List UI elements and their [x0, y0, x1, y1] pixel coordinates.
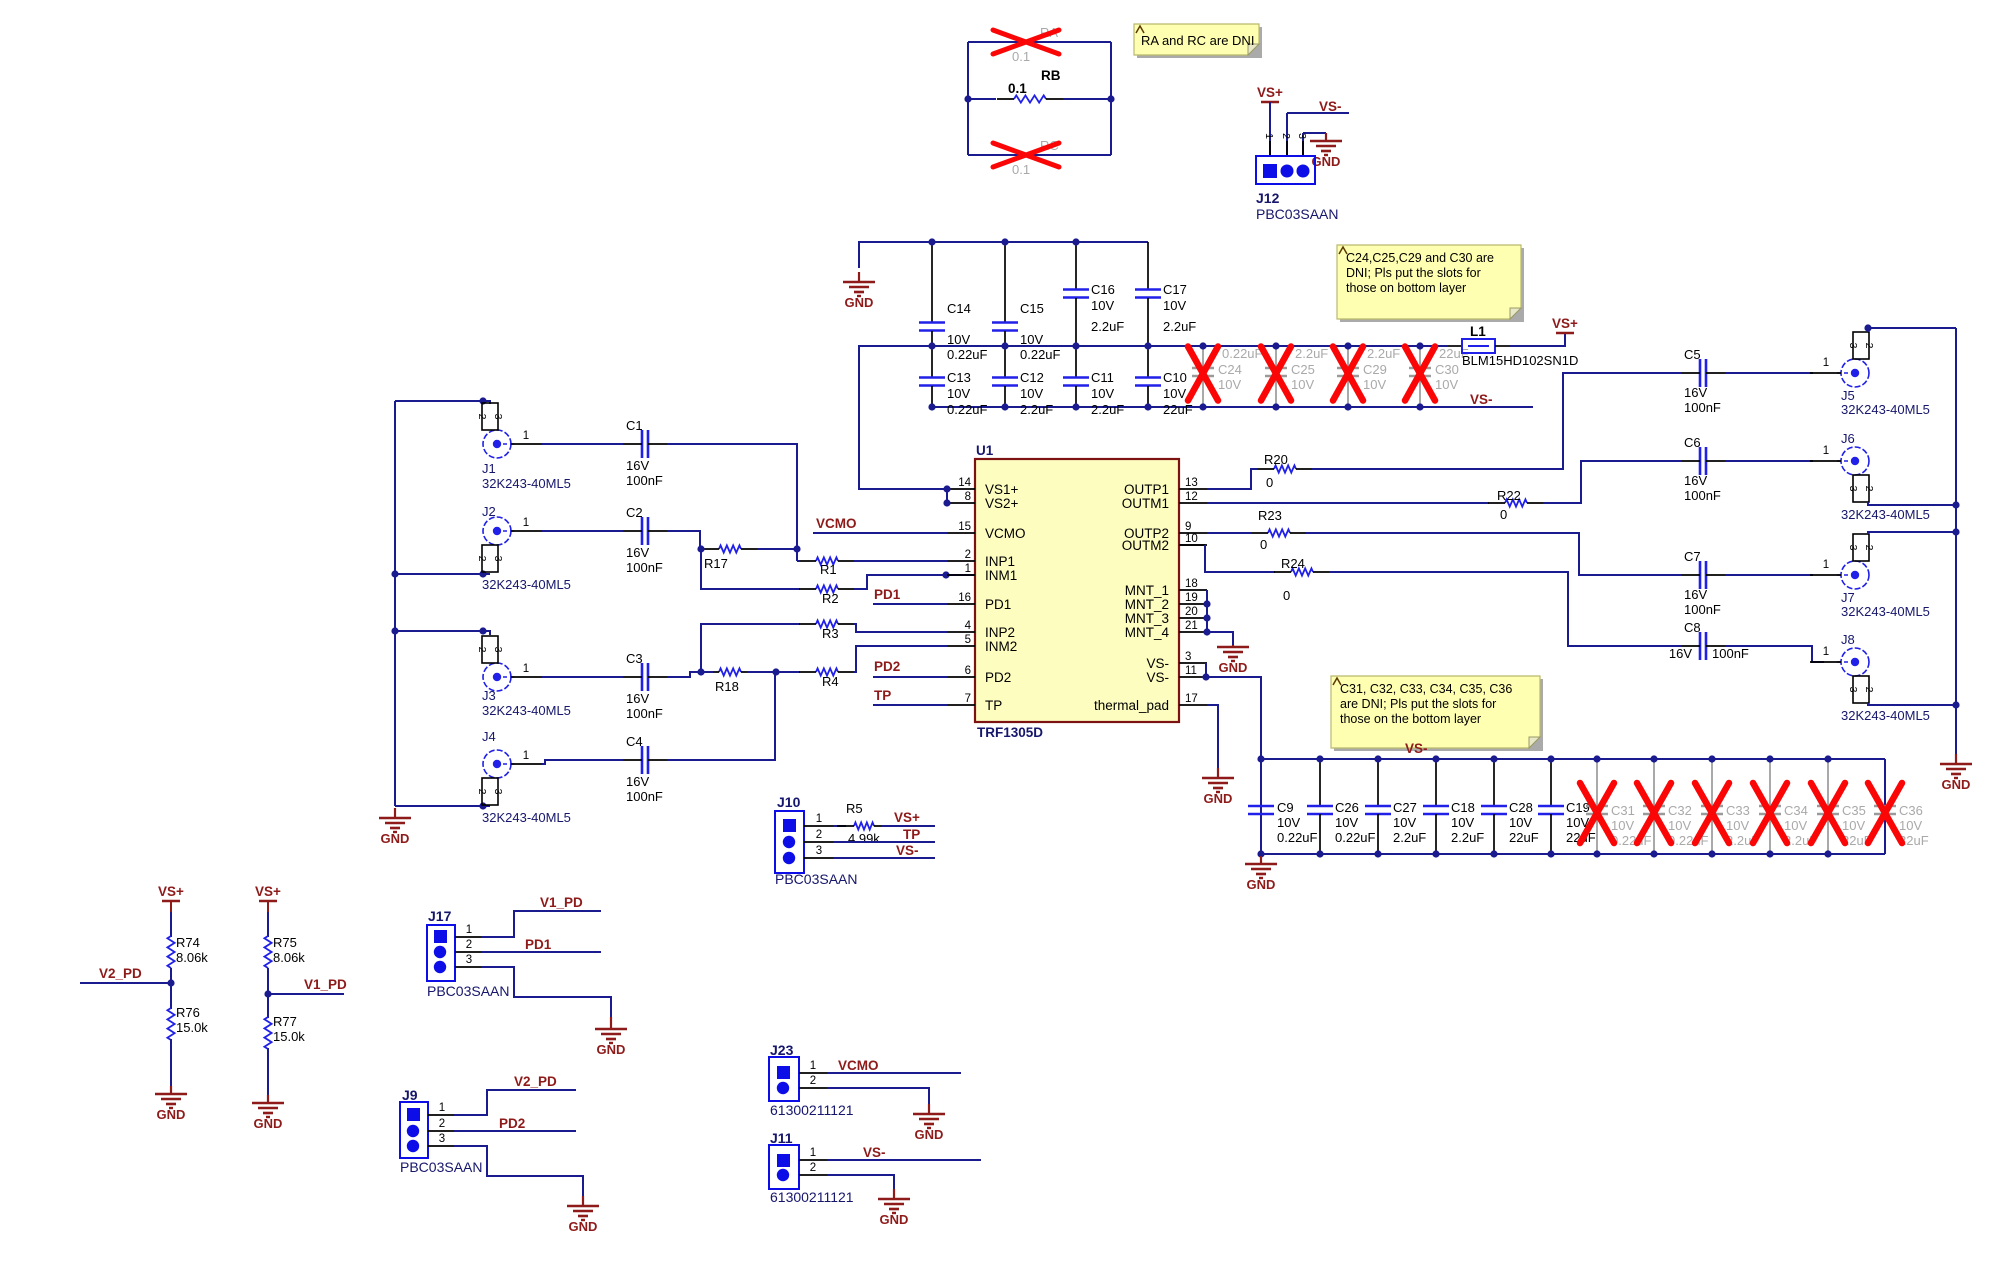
svg-text:0.22uF: 0.22uF — [1335, 830, 1376, 845]
svg-text:10V: 10V — [1899, 818, 1922, 833]
svg-text:VS-: VS- — [1146, 656, 1169, 671]
svg-text:MNT_4: MNT_4 — [1125, 625, 1170, 640]
svg-text:PBC03SAAN: PBC03SAAN — [775, 871, 857, 887]
svg-text:2.2uF: 2.2uF — [1091, 402, 1124, 417]
svg-text:32K243-40ML5: 32K243-40ML5 — [1841, 708, 1930, 723]
svg-text:10V: 10V — [1163, 298, 1186, 313]
svg-text:2: 2 — [1863, 687, 1875, 693]
svg-text:V1_PD: V1_PD — [304, 977, 347, 992]
svg-text:C31: C31 — [1611, 803, 1635, 818]
svg-text:PBC03SAAN: PBC03SAAN — [400, 1159, 482, 1175]
svg-text:3: 3 — [1847, 486, 1859, 492]
svg-text:32K243-40ML5: 32K243-40ML5 — [482, 577, 571, 592]
svg-text:C7: C7 — [1684, 549, 1701, 564]
svg-text:GND: GND — [880, 1212, 909, 1227]
svg-text:61300211121: 61300211121 — [770, 1102, 854, 1118]
svg-text:C27: C27 — [1393, 800, 1417, 815]
svg-text:J5: J5 — [1841, 388, 1855, 403]
svg-text:VS+: VS+ — [1552, 316, 1578, 331]
svg-text:3: 3 — [1185, 651, 1191, 663]
svg-text:C33: C33 — [1726, 803, 1750, 818]
svg-text:2.2uF: 2.2uF — [1451, 830, 1484, 845]
svg-text:3: 3 — [816, 845, 822, 857]
svg-text:INP1: INP1 — [985, 554, 1015, 569]
svg-text:10: 10 — [1185, 533, 1198, 545]
svg-text:32K243-40ML5: 32K243-40ML5 — [482, 703, 571, 718]
svg-text:1: 1 — [1823, 445, 1829, 457]
svg-text:INP2: INP2 — [985, 625, 1015, 640]
svg-text:2: 2 — [476, 414, 488, 420]
svg-text:2: 2 — [1280, 133, 1292, 139]
svg-text:L1: L1 — [1470, 324, 1486, 339]
svg-text:R3: R3 — [822, 626, 839, 641]
svg-text:R18: R18 — [715, 679, 739, 694]
svg-text:C28: C28 — [1509, 800, 1533, 815]
svg-text:VS-: VS- — [1470, 392, 1493, 407]
svg-text:2: 2 — [1863, 545, 1875, 551]
svg-text:2.2uF: 2.2uF — [1295, 346, 1328, 361]
svg-text:0.1: 0.1 — [1012, 162, 1030, 177]
svg-text:U1: U1 — [976, 443, 994, 458]
svg-text:RA and RC are DNI: RA and RC are DNI — [1141, 33, 1254, 48]
svg-text:C12: C12 — [1020, 370, 1044, 385]
svg-text:0.22uF: 0.22uF — [947, 402, 988, 417]
svg-text:TP: TP — [903, 827, 920, 842]
svg-text:3: 3 — [1296, 133, 1308, 139]
svg-text:0.22uF: 0.22uF — [1277, 830, 1318, 845]
svg-text:VS+: VS+ — [894, 810, 920, 825]
svg-text:5: 5 — [965, 634, 971, 646]
svg-text:R74: R74 — [176, 935, 200, 950]
svg-text:18: 18 — [1185, 578, 1198, 590]
svg-text:PD1: PD1 — [525, 937, 552, 952]
svg-text:TP: TP — [874, 688, 891, 703]
svg-text:C16: C16 — [1091, 282, 1115, 297]
svg-text:10V: 10V — [1091, 386, 1114, 401]
svg-text:2: 2 — [466, 939, 472, 951]
svg-text:3: 3 — [1847, 545, 1859, 551]
svg-text:16: 16 — [958, 592, 971, 604]
svg-text:2.2uF: 2.2uF — [1091, 319, 1124, 334]
svg-text:PD2: PD2 — [985, 670, 1011, 685]
svg-text:C11: C11 — [1091, 370, 1114, 385]
svg-text:J10: J10 — [777, 794, 801, 810]
svg-text:100nF: 100nF — [1712, 646, 1749, 661]
svg-text:10V: 10V — [1163, 386, 1186, 401]
svg-text:1: 1 — [1823, 646, 1829, 658]
svg-text:2: 2 — [810, 1075, 816, 1087]
svg-text:10V: 10V — [1020, 386, 1043, 401]
svg-text:J3: J3 — [482, 688, 496, 703]
svg-text:J7: J7 — [1841, 590, 1855, 605]
svg-text:3: 3 — [492, 647, 504, 653]
svg-text:V1_PD: V1_PD — [540, 895, 583, 910]
svg-text:thermal_pad: thermal_pad — [1094, 698, 1169, 713]
svg-text:those on the bottom layer: those on the bottom layer — [1340, 712, 1481, 726]
svg-text:VS1+: VS1+ — [985, 482, 1019, 497]
svg-text:VS-: VS- — [896, 843, 919, 858]
svg-text:C3: C3 — [626, 651, 643, 666]
svg-text:10V: 10V — [1668, 818, 1691, 833]
svg-text:R20: R20 — [1264, 452, 1288, 467]
svg-text:10V: 10V — [1435, 377, 1458, 392]
svg-text:61300211121: 61300211121 — [770, 1189, 854, 1205]
svg-text:11: 11 — [1185, 665, 1197, 677]
svg-text:0: 0 — [1500, 507, 1507, 522]
svg-text:32K243-40ML5: 32K243-40ML5 — [1841, 402, 1930, 417]
svg-text:VS-: VS- — [1405, 741, 1428, 756]
svg-text:V2_PD: V2_PD — [99, 966, 142, 981]
svg-text:PD1: PD1 — [985, 597, 1011, 612]
svg-text:C34: C34 — [1784, 803, 1808, 818]
svg-text:1: 1 — [466, 924, 472, 936]
svg-text:VCMO: VCMO — [838, 1058, 879, 1073]
svg-text:C17: C17 — [1163, 282, 1187, 297]
svg-text:16V: 16V — [1669, 646, 1692, 661]
svg-text:1: 1 — [523, 750, 529, 762]
svg-text:VS+: VS+ — [1257, 85, 1283, 100]
svg-text:0.22uF: 0.22uF — [1222, 346, 1263, 361]
svg-text:10V: 10V — [1277, 815, 1300, 830]
svg-text:22uF: 22uF — [1163, 402, 1193, 417]
svg-text:15.0k: 15.0k — [273, 1029, 305, 1044]
svg-text:3: 3 — [1847, 343, 1859, 349]
svg-text:1: 1 — [816, 813, 822, 825]
svg-text:100nF: 100nF — [626, 560, 663, 575]
svg-text:OUTM2: OUTM2 — [1122, 538, 1169, 553]
svg-text:TP: TP — [985, 698, 1002, 713]
svg-text:9: 9 — [1185, 521, 1191, 533]
svg-text:TRF1305D: TRF1305D — [977, 725, 1043, 740]
svg-text:R77: R77 — [273, 1014, 297, 1029]
svg-text:0.22uF: 0.22uF — [1611, 833, 1652, 848]
svg-text:C14: C14 — [947, 301, 971, 316]
svg-text:100nF: 100nF — [626, 473, 663, 488]
svg-text:16V: 16V — [1684, 473, 1707, 488]
svg-text:V2_PD: V2_PD — [514, 1074, 557, 1089]
svg-text:GND: GND — [569, 1219, 598, 1234]
svg-text:16V: 16V — [626, 774, 649, 789]
svg-text:0: 0 — [1266, 475, 1273, 490]
svg-text:1: 1 — [523, 430, 529, 442]
svg-text:C25: C25 — [1291, 362, 1315, 377]
svg-text:C26: C26 — [1335, 800, 1359, 815]
svg-text:10V: 10V — [947, 386, 970, 401]
svg-text:10V: 10V — [1363, 377, 1386, 392]
svg-text:J17: J17 — [428, 908, 452, 924]
svg-text:10V: 10V — [1611, 818, 1634, 833]
svg-text:0.1: 0.1 — [1012, 49, 1030, 64]
svg-text:2: 2 — [1863, 486, 1875, 492]
svg-text:8: 8 — [965, 491, 971, 503]
svg-text:C10: C10 — [1163, 370, 1187, 385]
svg-text:J12: J12 — [1256, 190, 1280, 206]
svg-text:those on bottom layer: those on bottom layer — [1346, 281, 1466, 295]
svg-text:C36: C36 — [1899, 803, 1923, 818]
svg-text:VS+: VS+ — [158, 884, 184, 899]
svg-text:3: 3 — [439, 1133, 445, 1145]
svg-text:22uF: 22uF — [1509, 830, 1539, 845]
svg-text:R22: R22 — [1497, 488, 1521, 503]
svg-text:10V: 10V — [1842, 818, 1865, 833]
svg-text:0: 0 — [1260, 537, 1267, 552]
svg-text:GND: GND — [597, 1042, 626, 1057]
svg-text:100nF: 100nF — [1684, 602, 1721, 617]
svg-text:6: 6 — [965, 665, 971, 677]
svg-text:3: 3 — [1847, 687, 1859, 693]
svg-text:MNT_2: MNT_2 — [1125, 597, 1169, 612]
svg-text:C32: C32 — [1668, 803, 1692, 818]
svg-text:C6: C6 — [1684, 435, 1701, 450]
svg-text:RB: RB — [1041, 68, 1061, 83]
svg-text:R2: R2 — [822, 591, 839, 606]
svg-text:16V: 16V — [626, 545, 649, 560]
svg-text:32K243-40ML5: 32K243-40ML5 — [482, 476, 571, 491]
svg-text:16V: 16V — [1684, 587, 1707, 602]
svg-text:10V: 10V — [1218, 377, 1241, 392]
svg-text:C9: C9 — [1277, 800, 1294, 815]
svg-text:10V: 10V — [1726, 818, 1749, 833]
svg-text:MNT_3: MNT_3 — [1125, 611, 1169, 626]
svg-text:32K243-40ML5: 32K243-40ML5 — [1841, 507, 1930, 522]
svg-text:R76: R76 — [176, 1005, 200, 1020]
svg-text:OUTM1: OUTM1 — [1122, 496, 1169, 511]
svg-text:0: 0 — [1283, 588, 1290, 603]
svg-text:J4: J4 — [482, 729, 496, 744]
svg-text:2.2uF: 2.2uF — [1367, 346, 1400, 361]
svg-text:VS2+: VS2+ — [985, 496, 1019, 511]
svg-text:100nF: 100nF — [1684, 400, 1721, 415]
svg-text:GND: GND — [1247, 877, 1276, 892]
svg-text:100nF: 100nF — [626, 789, 663, 804]
svg-text:1: 1 — [1823, 559, 1829, 571]
svg-text:2: 2 — [1863, 343, 1875, 349]
svg-text:C31, C32, C33, C34, C35, C36: C31, C32, C33, C34, C35, C36 — [1340, 682, 1512, 696]
svg-text:OUTP1: OUTP1 — [1124, 482, 1169, 497]
svg-text:2: 2 — [810, 1162, 816, 1174]
svg-text:4.99k: 4.99k — [848, 831, 880, 846]
svg-text:2.2uF: 2.2uF — [1020, 402, 1053, 417]
svg-text:R4: R4 — [822, 674, 839, 689]
svg-text:GND: GND — [845, 295, 874, 310]
svg-text:8.06k: 8.06k — [273, 950, 305, 965]
svg-text:C2: C2 — [626, 505, 643, 520]
svg-text:INM1: INM1 — [985, 568, 1017, 583]
svg-text:8.06k: 8.06k — [176, 950, 208, 965]
svg-text:19: 19 — [1185, 592, 1198, 604]
svg-text:J23: J23 — [770, 1042, 794, 1058]
svg-text:VS-: VS- — [1319, 99, 1342, 114]
svg-text:10V: 10V — [1091, 298, 1114, 313]
svg-text:C5: C5 — [1684, 347, 1701, 362]
svg-text:C1: C1 — [626, 418, 643, 433]
svg-text:PD2: PD2 — [874, 659, 900, 674]
svg-text:1: 1 — [810, 1060, 816, 1072]
svg-text:R17: R17 — [704, 556, 728, 571]
svg-text:10V: 10V — [1509, 815, 1532, 830]
svg-text:0.22uF: 0.22uF — [947, 347, 988, 362]
svg-text:32K243-40ML5: 32K243-40ML5 — [482, 810, 571, 825]
svg-text:2.2uF: 2.2uF — [1393, 830, 1426, 845]
svg-text:VCMO: VCMO — [816, 516, 857, 531]
svg-text:PD2: PD2 — [499, 1116, 525, 1131]
svg-text:10V: 10V — [1393, 815, 1416, 830]
svg-text:13: 13 — [1185, 477, 1198, 489]
svg-text:10V: 10V — [1784, 818, 1807, 833]
svg-text:12: 12 — [1185, 491, 1198, 503]
svg-text:J8: J8 — [1841, 632, 1855, 647]
svg-text:16V: 16V — [626, 691, 649, 706]
svg-text:10V: 10V — [947, 332, 970, 347]
svg-text:3: 3 — [466, 954, 472, 966]
svg-text:0.22uF: 0.22uF — [1020, 347, 1061, 362]
svg-text:R75: R75 — [273, 935, 297, 950]
svg-text:100nF: 100nF — [626, 706, 663, 721]
svg-text:3: 3 — [492, 556, 504, 562]
svg-text:100nF: 100nF — [1684, 488, 1721, 503]
svg-text:2: 2 — [439, 1118, 445, 1130]
svg-text:1: 1 — [965, 563, 971, 575]
svg-text:C29: C29 — [1363, 362, 1387, 377]
svg-text:17: 17 — [1185, 693, 1198, 705]
svg-text:21: 21 — [1185, 620, 1198, 632]
svg-text:GND: GND — [254, 1116, 283, 1131]
svg-text:1: 1 — [523, 517, 529, 529]
svg-text:7: 7 — [965, 693, 971, 705]
svg-text:GND: GND — [1204, 791, 1233, 806]
svg-text:R24: R24 — [1281, 556, 1305, 571]
svg-text:DNI; Pls put the slots for: DNI; Pls put the slots for — [1346, 266, 1481, 280]
svg-text:16V: 16V — [1684, 385, 1707, 400]
svg-text:1: 1 — [810, 1147, 816, 1159]
svg-text:C8: C8 — [1684, 620, 1701, 635]
svg-text:10V: 10V — [1451, 815, 1474, 830]
svg-text:32K243-40ML5: 32K243-40ML5 — [1841, 604, 1930, 619]
svg-text:R5: R5 — [846, 801, 863, 816]
svg-text:J9: J9 — [402, 1087, 418, 1103]
svg-text:VS-: VS- — [1146, 670, 1169, 685]
svg-text:14: 14 — [958, 477, 971, 489]
svg-text:VCMO: VCMO — [985, 526, 1026, 541]
svg-text:10V: 10V — [1291, 377, 1314, 392]
svg-text:0.1: 0.1 — [1008, 81, 1027, 96]
svg-text:GND: GND — [157, 1107, 186, 1122]
svg-text:GND: GND — [381, 831, 410, 846]
svg-text:J2: J2 — [482, 504, 496, 519]
svg-text:VS-: VS- — [863, 1145, 886, 1160]
svg-text:2: 2 — [476, 647, 488, 653]
svg-text:C13: C13 — [947, 370, 971, 385]
svg-text:R23: R23 — [1258, 508, 1282, 523]
svg-text:J6: J6 — [1841, 431, 1855, 446]
svg-text:1: 1 — [1263, 133, 1275, 139]
svg-text:GND: GND — [915, 1127, 944, 1142]
svg-text:C15: C15 — [1020, 301, 1044, 316]
svg-text:C30: C30 — [1435, 362, 1459, 377]
svg-text:10V: 10V — [1335, 815, 1358, 830]
svg-text:2: 2 — [476, 789, 488, 795]
svg-text:20: 20 — [1185, 606, 1198, 618]
svg-text:1: 1 — [1823, 357, 1829, 369]
svg-text:1: 1 — [439, 1102, 445, 1114]
svg-text:4: 4 — [965, 620, 972, 632]
svg-text:VS+: VS+ — [255, 884, 281, 899]
svg-text:1: 1 — [523, 663, 529, 675]
svg-text:16V: 16V — [626, 458, 649, 473]
svg-text:2: 2 — [476, 556, 488, 562]
svg-text:INM2: INM2 — [985, 639, 1017, 654]
svg-text:2: 2 — [816, 829, 822, 841]
svg-text:3: 3 — [492, 414, 504, 420]
svg-text:2.2uF: 2.2uF — [1163, 319, 1196, 334]
svg-text:2: 2 — [965, 549, 971, 561]
svg-text:10V: 10V — [1020, 332, 1043, 347]
svg-text:15.0k: 15.0k — [176, 1020, 208, 1035]
svg-text:BLM15HD102SN1D: BLM15HD102SN1D — [1462, 353, 1578, 368]
svg-text:C24,C25,C29 and C30 are: C24,C25,C29 and C30 are — [1346, 251, 1494, 265]
svg-text:MNT_1: MNT_1 — [1125, 583, 1169, 598]
svg-text:J1: J1 — [482, 461, 496, 476]
svg-text:3: 3 — [492, 789, 504, 795]
svg-text:PD1: PD1 — [874, 587, 901, 602]
svg-text:GND: GND — [1219, 660, 1248, 675]
svg-text:PBC03SAAN: PBC03SAAN — [427, 983, 509, 999]
svg-text:C4: C4 — [626, 734, 643, 749]
svg-text:J11: J11 — [770, 1130, 793, 1146]
svg-text:GND: GND — [1942, 777, 1971, 792]
svg-text:are DNI; Pls put the slots for: are DNI; Pls put the slots for — [1340, 697, 1496, 711]
svg-text:C35: C35 — [1842, 803, 1866, 818]
svg-text:R1: R1 — [820, 562, 837, 577]
svg-text:C18: C18 — [1451, 800, 1475, 815]
svg-text:C24: C24 — [1218, 362, 1242, 377]
svg-text:15: 15 — [958, 521, 971, 533]
svg-text:PBC03SAAN: PBC03SAAN — [1256, 206, 1338, 222]
